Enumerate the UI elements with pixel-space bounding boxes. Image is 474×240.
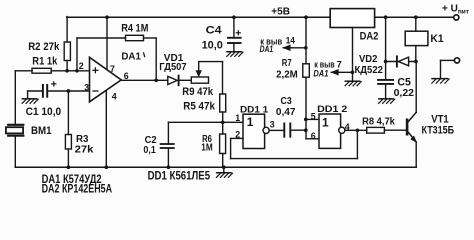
svg-text:+5В: +5В [271, 6, 290, 17]
svg-text:BM1: BM1 [31, 125, 52, 137]
svg-text:6: 6 [124, 71, 129, 81]
svg-text:2: 2 [235, 129, 240, 139]
svg-text:R5 47k: R5 47k [183, 101, 215, 113]
svg-text:0,47: 0,47 [276, 107, 296, 118]
svg-text:K1: K1 [430, 33, 443, 45]
svg-text:7: 7 [110, 64, 115, 74]
svg-text:1: 1 [235, 113, 240, 123]
svg-text:1M: 1M [201, 143, 212, 154]
svg-text:R1 1k: R1 1k [32, 56, 58, 68]
svg-text:DD1 К561ЛЕ5: DD1 К561ЛЕ5 [148, 170, 211, 182]
svg-text:DA1: DA1 [313, 69, 328, 79]
svg-text:DD1 2: DD1 2 [317, 104, 347, 114]
svg-text:6: 6 [311, 131, 316, 141]
svg-text:+ Uпит: + Uпит [442, 4, 469, 16]
svg-text:3: 3 [270, 120, 275, 130]
svg-text:R3: R3 [76, 134, 89, 145]
svg-text:R2 27k: R2 27k [28, 41, 60, 53]
svg-text:27k: 27k [75, 144, 94, 155]
svg-text:R8 4,7k: R8 4,7k [362, 117, 395, 128]
svg-text:КТ315Б: КТ315Б [422, 124, 455, 136]
svg-text:C1 10,0: C1 10,0 [26, 106, 62, 118]
svg-text:DA2: DA2 [360, 30, 379, 42]
svg-text:R9 47k: R9 47k [182, 86, 213, 98]
svg-text:DA2 КР142ЕН5А: DA2 КР142ЕН5А [42, 184, 113, 196]
svg-text:VD2: VD2 [359, 54, 378, 65]
svg-text:7: 7 [337, 60, 342, 70]
svg-text:0,1: 0,1 [143, 145, 156, 156]
svg-text:1: 1 [322, 116, 329, 130]
svg-text:DA1: DA1 [121, 50, 141, 62]
svg-text:R4 1M: R4 1M [121, 23, 148, 35]
svg-text:4: 4 [112, 91, 117, 101]
svg-text:10,0: 10,0 [202, 39, 223, 51]
svg-text:R7: R7 [282, 58, 292, 69]
svg-text:3: 3 [84, 83, 89, 93]
svg-text:C4: C4 [206, 25, 222, 37]
svg-text:DA1: DA1 [260, 44, 274, 54]
svg-text:КД522: КД522 [355, 65, 384, 76]
svg-text:2,2М: 2,2М [276, 69, 298, 80]
svg-text:4: 4 [345, 122, 350, 132]
svg-text:ГД507: ГД507 [159, 62, 187, 73]
svg-text:C5: C5 [397, 76, 411, 88]
svg-text:14: 14 [286, 36, 296, 46]
svg-text:C3: C3 [281, 96, 292, 107]
svg-text:0,22: 0,22 [394, 88, 415, 99]
svg-text:2: 2 [79, 61, 84, 71]
svg-text:5: 5 [311, 111, 316, 121]
svg-text:DD1 1: DD1 1 [240, 104, 268, 114]
svg-text:1: 1 [247, 115, 254, 129]
